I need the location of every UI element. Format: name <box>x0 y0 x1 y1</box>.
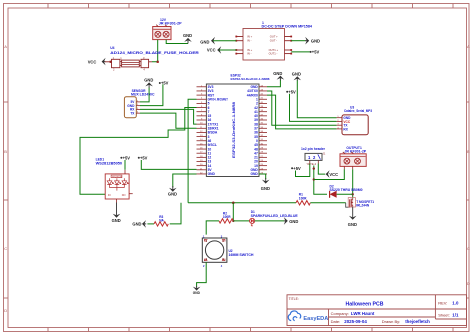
svg-text:thejoefletch: thejoefletch <box>405 319 430 324</box>
ground flag (12V input) <box>183 33 192 43</box>
wire DC-DC OUT- to GND <box>291 40 305 42</box>
fuse holder U4 AD124_MICRO_BLADE_FUSE_HOLDER <box>105 46 200 72</box>
wire VCC net vertical to D2 cathode <box>313 166 327 195</box>
svg-text:JR KF301-2P: JR KF301-2P <box>159 22 183 26</box>
ground flag (DC-DC IN-) <box>200 37 236 45</box>
header J1 1x2 pin header <box>301 147 326 166</box>
svg-text:ESP32-S3-DevKitC-1-N8R8: ESP32-S3-DevKitC-1-N8R8 <box>232 102 236 158</box>
power flag +5V (LED1) <box>120 155 130 169</box>
svg-text:DO: DO <box>122 193 126 197</box>
svg-text:+5V: +5V <box>123 155 131 160</box>
svg-text:100R: 100R <box>299 196 307 200</box>
svg-text:DI: DI <box>108 193 111 197</box>
svg-text:SS220 THRU SB0M0: SS220 THRU SB0M0 <box>330 188 363 192</box>
svg-text:B: B <box>4 149 7 154</box>
svg-text:16MM SWITCH: 16MM SWITCH <box>229 253 255 257</box>
wire sensor pin1 to GND flag <box>140 88 149 102</box>
svg-text:VCC: VCC <box>329 172 338 177</box>
wire switch pin2 to GND flag <box>197 262 207 287</box>
wire header pin1 to +5V <box>296 164 310 177</box>
transistor T1 IRLZ44N MOSFET <box>346 198 375 208</box>
svg-text:GND: GND <box>132 222 141 227</box>
power flag +5V (U3 VCC) <box>286 89 296 94</box>
resistor R1 100R <box>296 193 310 205</box>
svg-text:AD124_MICRO_BLADE_FUSE_HOLDER: AD124_MICRO_BLADE_FUSE_HOLDER <box>110 51 199 55</box>
svg-text:U4: U4 <box>110 46 114 50</box>
net flag VCC (DC-DC IN+) <box>207 46 236 54</box>
svg-text:B: B <box>467 149 470 154</box>
wire 12V pin1 to fuse <box>152 40 159 63</box>
wire ESP32 pin5 LED data <box>80 108 197 195</box>
svg-text:IRLZ44N: IRLZ44N <box>356 204 370 208</box>
svg-text:OUT1 -: OUT1 - <box>269 52 278 56</box>
svg-text:Date:: Date: <box>331 319 341 324</box>
svg-text:TITLE:: TITLE: <box>289 297 299 301</box>
svg-text:OUT +: OUT + <box>270 35 278 39</box>
svg-text:D: D <box>467 281 470 286</box>
wire R2 to switch <box>206 221 219 235</box>
svg-text:GND: GND <box>311 39 320 44</box>
ground flag (LED1) <box>112 203 121 224</box>
svg-text:OUT -: OUT - <box>270 39 277 43</box>
wire sensor pin2 to +5V flag <box>140 84 163 105</box>
svg-text:+5V: +5V <box>161 81 169 86</box>
net flag VCC (fuse input) <box>88 58 106 66</box>
ground flag (U3 GND net) <box>292 71 301 81</box>
svg-text:1/1: 1/1 <box>452 312 459 317</box>
svg-text:MUX LD2450C: MUX LD2450C <box>131 93 155 97</box>
wire 12V pin2 to GND <box>166 40 188 44</box>
svg-text:+5V: +5V <box>293 166 301 171</box>
svg-text:ESP32-S3-DevKitC-1-N8R8: ESP32-S3-DevKitC-1-N8R8 <box>231 77 270 81</box>
sensor U6 SENSOR MUX LD2450C <box>124 89 155 118</box>
wire ESP32 44/RX0 to U3 RX <box>267 95 337 129</box>
svg-text:1x2 pin header: 1x2 pin header <box>301 147 326 151</box>
svg-text:GND: GND <box>292 71 301 76</box>
svg-text:A: A <box>4 44 7 49</box>
switch U2 16MM SWITCH <box>202 234 254 267</box>
power flag +5V (DC-DC output) <box>310 50 320 55</box>
wire OUTPUT1 pin1 to VCC vertical <box>314 169 345 179</box>
svg-text:1.0: 1.0 <box>452 300 459 305</box>
svg-text:GND: GND <box>289 219 298 224</box>
wire gate line with resistor R1 <box>188 202 346 205</box>
wire ESP32 right GND pin1 to flag <box>267 80 280 87</box>
ground flag (DC-DC OUT-) <box>305 37 320 45</box>
resistor R2 100R <box>219 211 233 223</box>
svg-text:IN +: IN + <box>247 48 252 52</box>
svg-text:D: D <box>4 308 7 313</box>
LED LED1 WS2812B5050 <box>96 158 133 203</box>
resistor R3 NA <box>147 203 181 226</box>
svg-text:GND: GND <box>200 40 209 45</box>
svg-text:SPARKFUN-LED_LED-BLUE: SPARKFUN-LED_LED-BLUE <box>251 214 298 218</box>
ground flag (R3) <box>132 220 146 228</box>
power flag +5V (sensor) <box>159 81 169 86</box>
ground flag (T1 source) <box>348 207 357 227</box>
ground flag (D1) <box>284 217 299 225</box>
svg-text:GND: GND <box>261 186 270 191</box>
svg-text:C: C <box>467 246 470 251</box>
ground flag (sensor 5V row) <box>144 78 153 88</box>
svg-text:A: A <box>467 44 470 49</box>
svg-text:GPIO4_MOSFET: GPIO4_MOSFET <box>208 97 228 101</box>
wire OUTPUT1 pin2 to drain node <box>352 169 354 198</box>
svg-text:GND: GND <box>144 78 153 83</box>
svg-text:GND: GND <box>273 71 282 76</box>
svg-text:Halloween PCB: Halloween PCB <box>346 301 384 307</box>
wire U3 GND to flag <box>297 81 336 118</box>
svg-text:+5V: +5V <box>312 50 320 55</box>
svg-text:IN -: IN - <box>247 39 251 43</box>
connector 12V JR KF301-2P <box>153 18 183 40</box>
svg-text:IN +: IN + <box>247 35 252 39</box>
wire ESP32 43/TX0 to U3 TX <box>267 91 337 125</box>
wire U3 VCC to +5V <box>290 94 337 122</box>
ground flag (ESP32 left GND) <box>168 186 177 197</box>
svg-text:Company:: Company: <box>331 311 349 316</box>
ground flag (ESP32 bottom right) <box>261 178 270 191</box>
svg-text:C: C <box>4 246 7 251</box>
LED D1 SPARKFUN-LED_LED-BLUE <box>233 210 297 226</box>
svg-text:GND: GND <box>168 192 177 197</box>
converter U1 DC-DC STEP DOWN MP1584 <box>235 21 312 60</box>
wire ESP32 bottom right GND to flag <box>259 174 266 179</box>
wire sensor RX to ESP32 17/TX1 <box>140 109 197 124</box>
svg-text:2025-09-04: 2025-09-04 <box>344 319 367 324</box>
svg-text:LWR Haunt: LWR Haunt <box>351 311 375 316</box>
module U5 ESP32-S3-DevKitC-1-N8R8 <box>197 74 270 177</box>
svg-text:VCC: VCC <box>207 48 216 53</box>
ground flag (switch) <box>193 286 201 295</box>
svg-text:YEYE-2: YEYE-2 <box>307 162 317 166</box>
svg-text:+5V: +5V <box>140 155 148 160</box>
svg-text:GND: GND <box>208 172 216 176</box>
svg-text:+5V: +5V <box>288 89 296 94</box>
svg-text:GND: GND <box>183 33 192 38</box>
svg-text:GND: GND <box>348 222 357 227</box>
wire sensor TX to ESP32 18/RX1 <box>140 113 197 128</box>
svg-text:Drawn By:: Drawn By: <box>382 319 400 324</box>
svg-text:GND: GND <box>193 291 201 295</box>
svg-text:WS2812B5050: WS2812B5050 <box>96 161 123 165</box>
power flag +5V (header) <box>291 166 301 171</box>
svg-text:Catalex_Serial_MP3: Catalex_Serial_MP3 <box>344 109 372 113</box>
EasyEDA logo <box>288 311 328 322</box>
connector OUTPUT1 JR KF301-2P <box>340 146 367 169</box>
svg-text:GND: GND <box>112 218 121 223</box>
wire junction down to R2/D1 row <box>232 203 234 222</box>
power flag +5V (rail) <box>138 155 148 160</box>
wire ESP32 GPIO4_MOSFET to gate net <box>188 99 196 203</box>
wire ESP32 GND to flag <box>173 174 197 188</box>
wire header pin2 to VCC <box>318 164 325 175</box>
svg-text:REV:: REV: <box>438 300 447 305</box>
wire ESP32 5V rail <box>141 160 196 169</box>
svg-text:EasyEDA: EasyEDA <box>303 316 328 322</box>
net flag VCC (header) <box>326 170 338 178</box>
title block <box>287 295 467 326</box>
svg-text:IN -: IN - <box>247 52 251 56</box>
module U3 Catalex_Serial_MP3 <box>337 105 373 134</box>
svg-text:JR KF301-2P: JR KF301-2P <box>344 150 367 154</box>
svg-text:Sheet:: Sheet: <box>438 312 450 317</box>
svg-text:GND: GND <box>250 172 258 176</box>
wire DC-DC OUT1+ to +5V <box>291 51 310 53</box>
ground flag (ESP32 top right) <box>273 71 284 80</box>
svg-text:VCC: VCC <box>88 60 97 65</box>
svg-text:OUT1 +: OUT1 + <box>269 48 279 52</box>
diode D2 SS220 THRU SB0M0 <box>330 184 363 197</box>
